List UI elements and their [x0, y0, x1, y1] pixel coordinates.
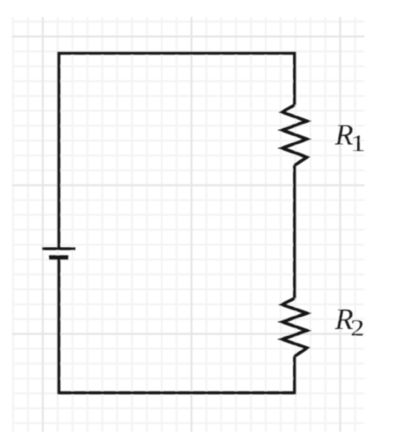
svg-text:2: 2 [351, 314, 365, 341]
battery negative plate (short thick) [49, 255, 68, 259]
battery positive plate (long) [42, 247, 75, 250]
resistor R1 [282, 105, 307, 165]
label R2 [334, 303, 364, 341]
svg-text:1: 1 [350, 130, 365, 156]
wire: lower right vertical + bottom rail + lower left vertical [59, 258, 295, 393]
wire: right side between R1 and R2 [293, 165, 296, 298]
label R1 [334, 119, 366, 157]
wire: top-left vertical + top rail + upper right vertical [59, 53, 295, 250]
resistor R2 [282, 298, 307, 356]
